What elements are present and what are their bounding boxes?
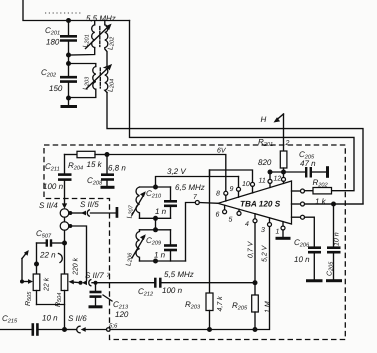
pin 8 bbox=[216, 191, 228, 202]
node tank2 top bbox=[153, 227, 158, 232]
svg-text:180: 180 bbox=[46, 38, 60, 47]
svg-text:L202: L202 bbox=[108, 36, 116, 50]
svg-text:100 n: 100 n bbox=[162, 286, 183, 295]
node SII/4 lower bbox=[68, 224, 72, 228]
svg-text:10 n: 10 n bbox=[42, 314, 58, 323]
svg-text:5;6: 5;6 bbox=[109, 323, 118, 330]
svg-text:4,7 k: 4,7 k bbox=[216, 296, 224, 312]
resistor R203 bbox=[185, 293, 224, 330]
op-amp U1 TBA 120 S bbox=[218, 181, 292, 224]
R504 wiper arm bbox=[69, 280, 81, 285]
pin 5 bbox=[229, 209, 242, 223]
svg-text:9: 9 bbox=[230, 186, 234, 193]
capacitor C209 bbox=[140, 230, 186, 261]
capacitor C215 bbox=[0, 314, 65, 336]
inductor L206 bbox=[126, 230, 146, 266]
wire R505/R504 bottoms bbox=[37, 305, 65, 330]
svg-text:10: 10 bbox=[242, 181, 250, 188]
wire node A to L201 bottom bbox=[69, 48, 95, 55]
svg-text:1 n: 1 n bbox=[155, 207, 167, 216]
svg-text:6: 6 bbox=[216, 212, 220, 219]
node C213 tap bbox=[94, 281, 98, 285]
switch S II/6 bbox=[65, 314, 107, 333]
svg-text:3,2 V: 3,2 V bbox=[167, 167, 186, 176]
dashed module boundary bbox=[44, 145, 345, 340]
svg-text:4: 4 bbox=[245, 221, 249, 228]
pin 1 bbox=[276, 222, 286, 236]
transformer T1 tuning arrow bbox=[86, 24, 112, 49]
resistor R202 bbox=[292, 178, 332, 206]
svg-text:TBA 120 S: TBA 120 S bbox=[240, 200, 281, 209]
inductor L204 bbox=[105, 67, 116, 93]
wire tank2 bottom to pin 7 bbox=[186, 203, 196, 262]
wire R203 riser bbox=[209, 170, 211, 293]
svg-text:1 n: 1 n bbox=[154, 251, 166, 260]
svg-text:8: 8 bbox=[216, 191, 220, 198]
svg-text:820: 820 bbox=[258, 158, 272, 167]
svg-text:0,7 V: 0,7 V bbox=[248, 240, 255, 258]
svg-text:22 k: 22 k bbox=[43, 277, 51, 292]
wire SII/4 lower circle to C507 node bbox=[64, 230, 66, 243]
ground pin 1 bbox=[276, 230, 291, 238]
node tank2 bottom bbox=[153, 259, 158, 264]
capacitor C202 bbox=[41, 64, 77, 99]
switch S II/4 connector bbox=[39, 199, 69, 231]
capacitor C205 bbox=[299, 150, 329, 178]
transformer T2 tuning arrow bbox=[87, 64, 113, 89]
svg-text:5,5 MHz: 5,5 MHz bbox=[86, 14, 116, 23]
svg-text:6,8 n: 6,8 n bbox=[108, 164, 126, 173]
transformer T1 core bbox=[99, 27, 101, 47]
node R203 bottom bbox=[207, 327, 212, 332]
node C215/R504 bbox=[62, 327, 67, 332]
ground bbox=[61, 98, 78, 107]
node B (C202 top / L203 top) bbox=[66, 61, 71, 66]
resistor R204 bbox=[65, 151, 108, 171]
svg-text:6V: 6V bbox=[217, 148, 227, 155]
svg-text:120: 120 bbox=[115, 310, 129, 319]
svg-text:L206: L206 bbox=[126, 252, 134, 266]
capacitor C210 bbox=[140, 187, 178, 218]
pin 4 bbox=[245, 214, 257, 283]
resistor R201 bbox=[258, 138, 287, 173]
node top rail junction bbox=[66, 18, 71, 23]
H output arrow bbox=[261, 114, 284, 124]
node C205b tap bbox=[331, 202, 336, 207]
pin 10 bbox=[242, 181, 255, 193]
pin 7 bbox=[195, 201, 199, 205]
wire IC out low to C206 bbox=[292, 215, 315, 246]
svg-text:H: H bbox=[261, 115, 267, 124]
wire dotted leader to 5.5MHz label bbox=[45, 12, 83, 14]
wire loop from L204 bottom to right side (outer) bbox=[107, 93, 363, 205]
svg-text:S II/7: S II/7 bbox=[85, 271, 104, 280]
svg-text:12: 12 bbox=[274, 176, 282, 183]
capacitor C212 bbox=[138, 278, 255, 298]
svg-text:1 M: 1 M bbox=[265, 301, 272, 313]
wire jog to pin 10 bbox=[210, 170, 253, 182]
wire loop from top rail to right side (inner) bbox=[130, 21, 355, 191]
svg-text:S II/5: S II/5 bbox=[80, 200, 99, 209]
wire input from top edge bbox=[23, 0, 130, 21]
capacitor C201 bbox=[45, 21, 77, 56]
wire 6V rail to pin 8 bbox=[107, 155, 226, 192]
svg-text:1: 1 bbox=[276, 229, 280, 236]
svg-text:S II/4: S II/4 bbox=[39, 201, 58, 210]
capacitor C211 bbox=[43, 155, 72, 199]
svg-text:15 k: 15 k bbox=[87, 160, 103, 169]
svg-text:22 n: 22 n bbox=[39, 251, 56, 260]
pin 9 bbox=[230, 177, 241, 198]
wire IC out mid bbox=[292, 202, 364, 206]
node SII/4 upper bbox=[68, 211, 72, 215]
R505 wiper arm bbox=[20, 250, 33, 284]
node A (C201/L201 bottom) bbox=[66, 53, 71, 58]
resistor R205 bbox=[232, 283, 272, 330]
capacitor C205b bbox=[326, 204, 342, 281]
svg-text:6,5 MHz: 6,5 MHz bbox=[175, 183, 205, 192]
node tank1 top bbox=[153, 185, 158, 190]
capacitor C507 bbox=[36, 229, 65, 263]
feed-through 5/6 bbox=[107, 328, 111, 332]
node R204/C208 bbox=[105, 152, 110, 157]
svg-text:5,5 MHz: 5,5 MHz bbox=[164, 270, 194, 279]
wire node C to L203 bottom bbox=[69, 89, 96, 97]
switch S II/5 contact and terminal bbox=[70, 200, 118, 218]
wire node B to L203 top bbox=[69, 64, 96, 67]
wire 3.2V node bbox=[156, 167, 239, 187]
svg-text:3: 3 bbox=[261, 227, 265, 234]
node tank1 bottom bbox=[153, 216, 158, 221]
wire riser between tanks bbox=[155, 218, 157, 230]
node C507 right bbox=[62, 241, 67, 246]
potentiometer R504 bbox=[55, 243, 80, 307]
svg-text:C205: C205 bbox=[327, 261, 335, 276]
svg-text:11: 11 bbox=[259, 178, 266, 185]
node R205 bottom bbox=[253, 327, 258, 332]
inductor L201 bbox=[83, 21, 95, 48]
svg-text:R505: R505 bbox=[25, 291, 33, 306]
svg-text:5,2 V: 5,2 V bbox=[262, 244, 269, 262]
wire pin 2 bbox=[283, 114, 285, 151]
svg-text:220 k: 220 k bbox=[72, 257, 80, 276]
wire SII/4 lower to SII/7 bbox=[70, 226, 86, 281]
capacitor C208 bbox=[87, 155, 126, 188]
svg-text:100 n: 100 n bbox=[43, 182, 64, 191]
inductor L203 bbox=[83, 67, 96, 91]
inductor L207 bbox=[127, 187, 146, 219]
bottom rail bbox=[110, 227, 269, 330]
pin 3 bbox=[261, 218, 272, 234]
svg-text:L204: L204 bbox=[108, 79, 116, 92]
capacitor C206 bbox=[294, 238, 323, 281]
svg-text:10 n: 10 n bbox=[294, 255, 310, 264]
svg-text:150: 150 bbox=[49, 84, 63, 93]
svg-text:10 n: 10 n bbox=[334, 232, 341, 246]
pin 11 bbox=[259, 172, 273, 187]
pin 6 bbox=[216, 205, 227, 218]
transformer T2 core bbox=[99, 68, 101, 88]
potentiometer R505 bbox=[25, 264, 51, 306]
wire pins 11/12 rail bbox=[270, 171, 305, 173]
svg-text:S II/6: S II/6 bbox=[68, 314, 87, 323]
capacitor C213 bbox=[89, 283, 130, 319]
node C (ground node) bbox=[66, 96, 71, 101]
inductor L202 bbox=[105, 21, 116, 67]
switch S II/7 bbox=[79, 271, 155, 286]
node pin4/R205 bbox=[253, 280, 258, 285]
svg-text:2: 2 bbox=[285, 140, 290, 147]
pin 12 bbox=[274, 172, 286, 183]
svg-text:5: 5 bbox=[229, 217, 233, 224]
node C507 left leg bbox=[36, 243, 38, 264]
svg-text:47 n: 47 n bbox=[300, 159, 316, 168]
